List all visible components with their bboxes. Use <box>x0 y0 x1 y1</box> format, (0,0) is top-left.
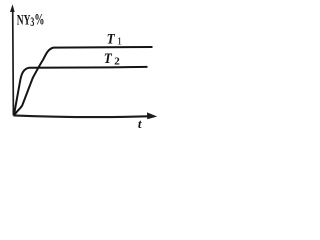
svg-text:T: T <box>104 51 113 67</box>
svg-text:T: T <box>107 31 116 47</box>
svg-text:NY3%: NY3% <box>17 10 45 29</box>
svg-text:t: t <box>138 116 142 131</box>
svg-text:2: 2 <box>114 55 120 67</box>
x-axis arrowhead <box>147 112 157 119</box>
svg-text:1: 1 <box>117 35 123 47</box>
curve T1 (sigmoid rise crossing T2 plateau, higher plateau) <box>15 47 153 115</box>
x-axis <box>13 115 147 117</box>
curve T2 (steep rise to lower plateau) <box>14 67 148 115</box>
y-axis <box>12 9 15 116</box>
y-axis arrowhead <box>10 4 15 12</box>
